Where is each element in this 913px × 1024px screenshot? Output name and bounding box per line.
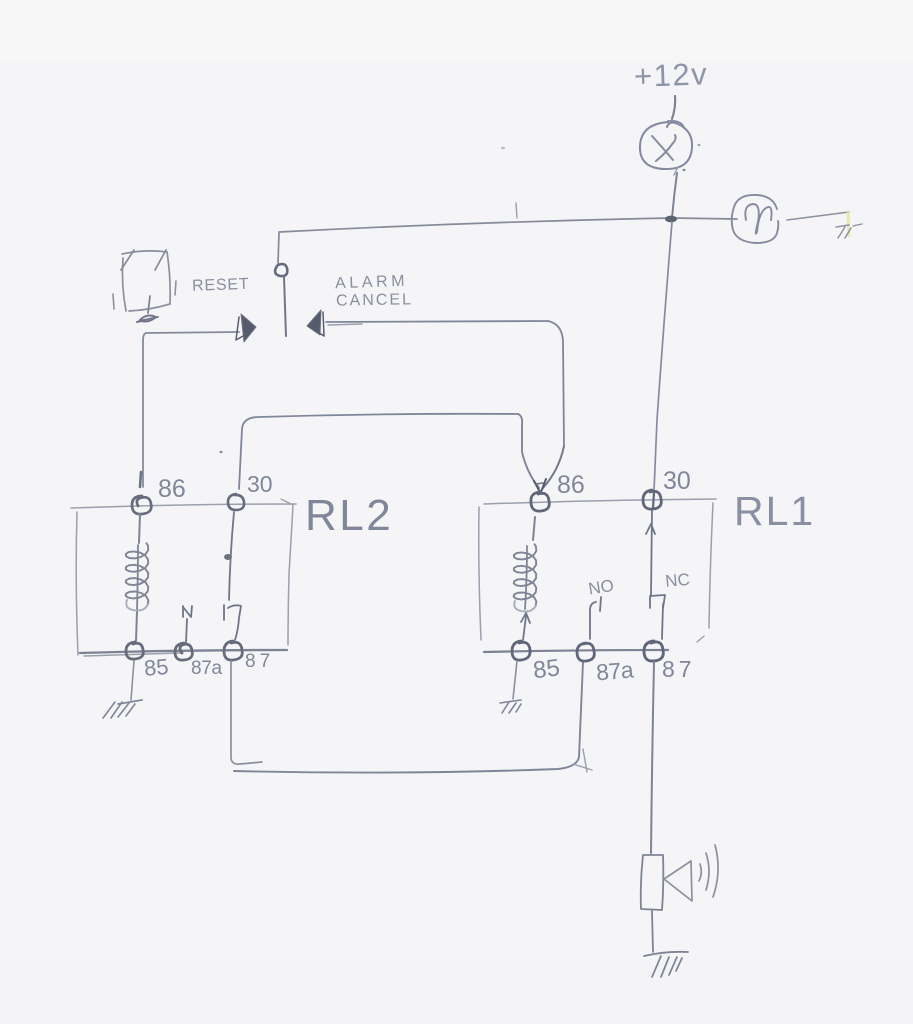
svg-text:85: 85 bbox=[143, 654, 170, 681]
svg-text:NC: NC bbox=[664, 570, 690, 591]
svg-text:87a: 87a bbox=[191, 658, 223, 679]
svg-text:87a: 87a bbox=[595, 656, 635, 685]
svg-text:RL2: RL2 bbox=[305, 491, 393, 540]
svg-text:+12v: +12v bbox=[633, 56, 708, 94]
svg-text:85: 85 bbox=[532, 654, 562, 684]
svg-text:ALARM: ALARM bbox=[335, 273, 409, 293]
svg-text:30: 30 bbox=[663, 467, 691, 495]
svg-text:NO: NO bbox=[587, 576, 615, 599]
svg-text:RL1: RL1 bbox=[734, 488, 815, 534]
svg-text:86: 86 bbox=[158, 475, 186, 503]
svg-text:87: 87 bbox=[245, 651, 274, 672]
svg-text:86: 86 bbox=[557, 471, 585, 499]
svg-text:30: 30 bbox=[247, 471, 273, 497]
svg-text:87: 87 bbox=[662, 656, 696, 682]
svg-text:CANCEL: CANCEL bbox=[336, 291, 413, 309]
svg-text:RESET: RESET bbox=[192, 276, 250, 295]
